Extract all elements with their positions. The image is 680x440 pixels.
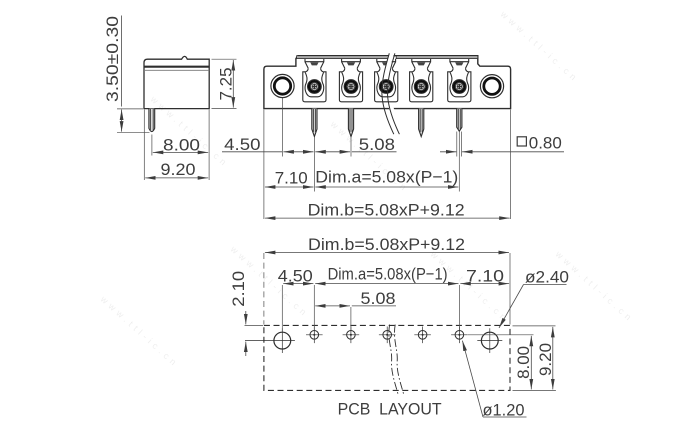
svg-text:PCB LAYOUT: PCB LAYOUT xyxy=(338,400,442,419)
side view groove line thin xyxy=(144,69,209,71)
dimension 4.50 pcb xyxy=(278,267,314,286)
dimension square 0.80 xyxy=(440,133,564,152)
pcb hole H4 xyxy=(414,327,431,344)
dimension 3.50±0.30 xyxy=(103,16,149,133)
side view groove line thick xyxy=(144,66,209,68)
terminal T5 xyxy=(448,59,471,102)
mounting hole right xyxy=(480,75,503,98)
dimension diameter 1.20 xyxy=(462,341,526,420)
svg-text:7.10: 7.10 xyxy=(275,169,308,188)
dimension 4.50 front xyxy=(222,135,314,154)
front view body outline xyxy=(264,56,511,109)
pin P1 xyxy=(312,109,317,137)
svg-text:Dim.a=5.08x(P−1): Dim.a=5.08x(P−1) xyxy=(328,264,448,283)
svg-text:ø2.40: ø2.40 xyxy=(525,268,569,287)
dimension Dim.a pcb xyxy=(315,264,458,283)
svg-text:8.00: 8.00 xyxy=(514,346,533,379)
pin P2 xyxy=(348,109,353,137)
svg-text:7.10: 7.10 xyxy=(466,267,504,286)
terminal T1 xyxy=(303,59,326,102)
pin P5 xyxy=(457,109,462,132)
pcb mounting hole right xyxy=(477,328,502,353)
terminal T2 xyxy=(339,59,362,102)
svg-text:ø1.20: ø1.20 xyxy=(483,401,525,420)
dimension Dim.b pcb xyxy=(265,235,509,254)
svg-text:9.20: 9.20 xyxy=(536,343,555,376)
svg-text:8.00: 8.00 xyxy=(163,135,200,154)
pcb hole H1 xyxy=(306,327,323,344)
svg-text:Dim.a=5.08x(P−1): Dim.a=5.08x(P−1) xyxy=(315,168,458,187)
svg-text:5.08: 5.08 xyxy=(359,135,395,154)
pcb hole H2 xyxy=(343,327,360,344)
svg-text:5.08: 5.08 xyxy=(361,289,396,308)
dimension 7.10 pcb xyxy=(460,267,509,286)
dimension Dim.b front xyxy=(265,200,510,219)
front view top band xyxy=(297,56,390,59)
side view body xyxy=(144,56,209,108)
dimension 9.20 pcb xyxy=(536,327,555,390)
pcb hole H3 xyxy=(379,327,396,344)
dimension diameter 2.40 xyxy=(499,268,569,328)
break lines front view xyxy=(387,53,392,70)
dimension 9.20 xyxy=(144,110,208,181)
break lines pcb xyxy=(389,325,398,394)
terminal T4 xyxy=(410,59,433,102)
side view pin xyxy=(149,109,155,132)
watermark xyxy=(98,8,636,369)
pcb outline dashed xyxy=(264,325,510,390)
mounting hole left xyxy=(271,74,294,97)
dimension Dim.a front xyxy=(315,168,458,187)
svg-text:9.20: 9.20 xyxy=(161,160,196,179)
pcb mounting hole left xyxy=(245,328,295,353)
extension lines pcb xyxy=(245,253,556,390)
svg-text:3.50±0.30: 3.50±0.30 xyxy=(103,16,122,102)
pin P4 xyxy=(419,109,424,137)
extension lines front view xyxy=(264,98,511,219)
terminal T3 xyxy=(375,59,398,102)
dimension 5.08 pcb xyxy=(315,289,396,308)
pcb hole H5 xyxy=(451,327,468,344)
svg-text:4.50: 4.50 xyxy=(224,135,260,154)
dimension 7.25 xyxy=(212,59,237,108)
dimension 8.00 xyxy=(152,110,209,181)
dimension 8.00 pcb xyxy=(514,336,533,390)
svg-text:Dim.b=5.08xP+9.12: Dim.b=5.08xP+9.12 xyxy=(308,235,465,254)
svg-text:Dim.b=5.08xP+9.12: Dim.b=5.08xP+9.12 xyxy=(308,200,465,219)
dimension 2.10 xyxy=(229,271,248,356)
dimension 7.10 front xyxy=(265,169,314,188)
dimension 5.08 front xyxy=(315,135,396,154)
svg-text:7.25: 7.25 xyxy=(217,68,236,101)
svg-text:4.50: 4.50 xyxy=(278,267,313,286)
svg-text:0.80: 0.80 xyxy=(529,133,562,152)
svg-text:2.10: 2.10 xyxy=(229,271,248,307)
